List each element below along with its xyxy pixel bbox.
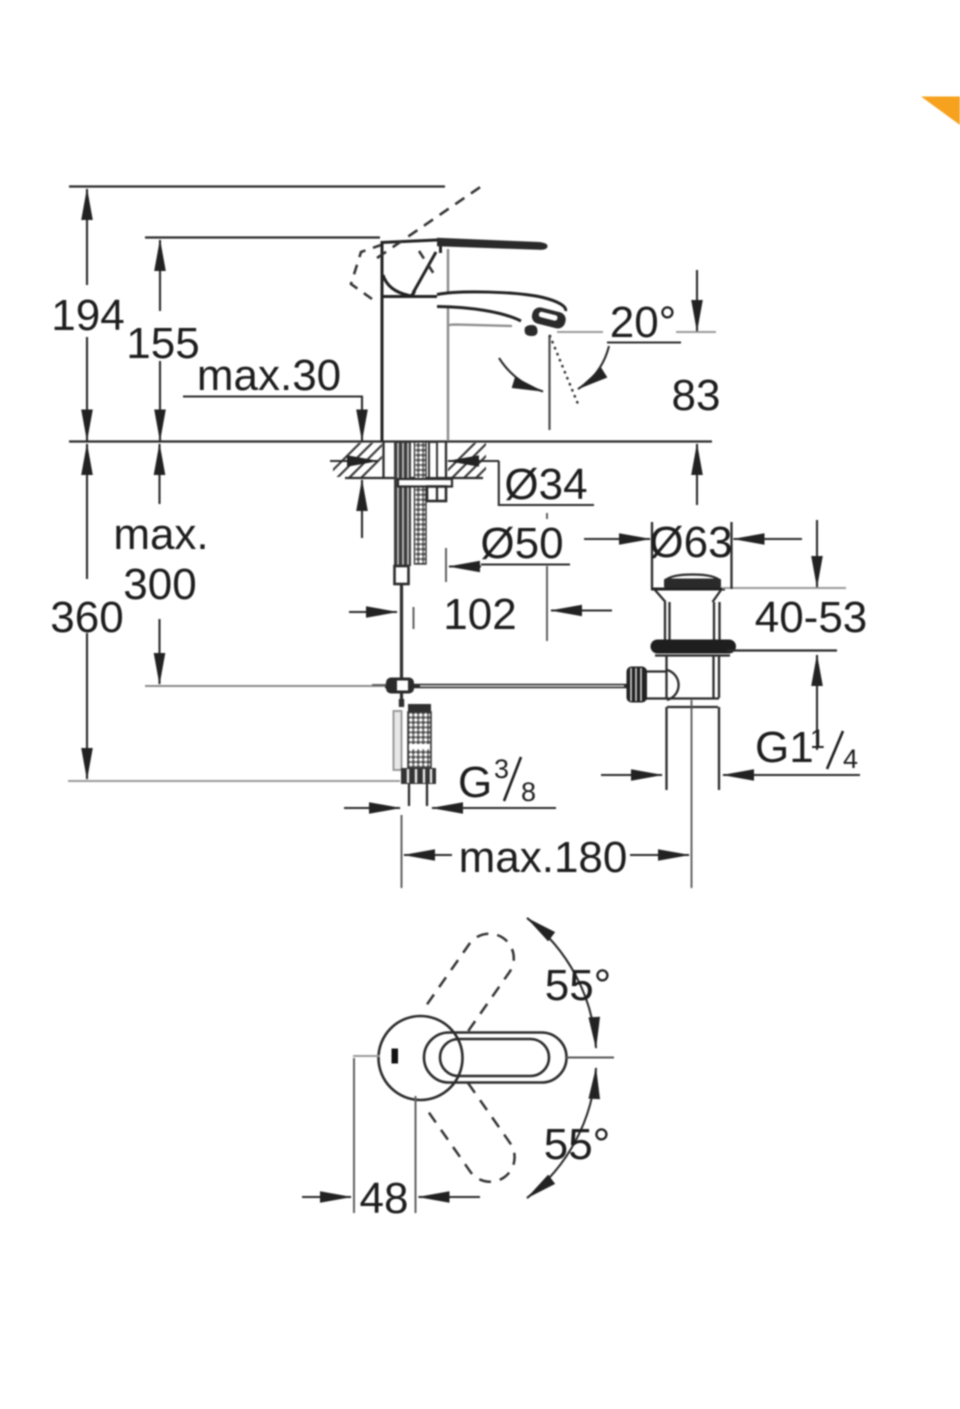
svg-text:155: 155 [126,319,199,368]
svg-text:360: 360 [50,593,123,642]
dimension Ø34 leader [330,460,378,462]
20deg dotted slant line [550,336,578,404]
20deg vertical line [548,335,550,430]
svg-text:Ø63: Ø63 [649,518,732,567]
body circle [379,1016,463,1100]
svg-text:G1: G1 [755,723,814,772]
axis line right [566,1057,614,1059]
svg-text:G: G [458,758,492,807]
20deg arc arrow left [499,358,543,392]
hose bottom ref line (360) [68,780,400,782]
body front edge (grey) [447,249,449,441]
ref line top (194) [69,185,445,187]
handle corner arc [406,291,415,296]
side port [646,670,667,672]
20deg arc arrow right [578,346,609,389]
counter cross-section hatching left [325,442,397,478]
counter underside line [345,477,483,479]
handle neck curve [383,275,409,296]
counter top line [69,440,712,442]
counter cross-section hatching right [440,442,512,478]
dimension G1 1/4 arrows [601,774,662,776]
dimension max.300 [158,444,160,504]
knurled knob [627,667,648,703]
svg-text:1: 1 [810,724,825,754]
mounting nut [427,487,446,502]
swing arc lower [527,1068,596,1198]
linkage rod grey left part [145,685,385,687]
neck [655,590,666,602]
faucet body left edge [381,241,384,441]
threaded shank solid bar [394,442,411,566]
shank white strip [429,442,437,478]
svg-text:8: 8 [521,777,536,807]
lever inner outline [440,1039,549,1076]
dimension 83 [696,270,698,331]
svg-text:20°: 20° [610,298,677,347]
ghost lever -55 dashed [428,1083,524,1191]
cap brim [651,588,725,591]
lower brim [655,654,730,656]
svg-text:Ø50: Ø50 [480,519,563,568]
linkage rod [385,684,628,689]
lever bar [437,238,548,250]
o-ring [651,640,737,654]
hole edges [382,442,384,478]
tail pipe walls [665,707,667,790]
supply hose braided [408,704,431,714]
indicator tick [392,1049,399,1064]
seam line [382,295,447,298]
spout height grey line [557,331,603,333]
svg-text:max.30: max.30 [197,351,341,400]
handle lower-right diagonal [413,252,436,293]
svg-text:55°: 55° [545,961,612,1010]
dimension G3/8 arrows [344,807,400,809]
ghost lever dashed [377,187,481,259]
hose nut [401,768,436,784]
hose tails [408,784,410,806]
svg-text:40-53: 40-53 [755,593,868,642]
dimension Ø63 [651,522,653,589]
svg-text:83: 83 [672,371,721,420]
svg-text:102: 102 [443,590,516,639]
drain cap [665,575,720,582]
threaded shank crosshatch bar [415,442,427,564]
svg-text:48: 48 [360,1174,409,1223]
40-53 bottom ref [727,649,837,651]
swing arc upper [527,918,596,1048]
handle pivot edge [439,242,442,253]
svg-text:194: 194 [51,291,124,340]
pull rod [400,584,403,700]
svg-text:max.: max. [113,510,208,559]
drain axis line [691,700,693,888]
svg-text:300: 300 [123,560,196,609]
svg-text:3: 3 [494,754,509,784]
dimension 194 [86,189,88,285]
ghost handle dashed outline [351,245,381,299]
svg-text:4: 4 [843,744,858,774]
spout stub grey [353,1055,380,1057]
dimension 360 [86,444,88,579]
pull rod coupler [395,566,409,584]
dimension max.180 [401,815,403,888]
aerator tip [530,306,567,330]
rod clevis joint [386,678,414,694]
ref line 155 [145,236,380,238]
upper body walls [664,602,666,640]
orange corner badge [921,97,960,126]
dimension 48 [353,1058,355,1213]
dimension 40-53 [816,520,818,587]
mounting washer [398,479,452,487]
svg-text:Ø34: Ø34 [504,460,587,509]
dimension 155 [159,240,161,311]
spout beak [437,292,566,318]
svg-text:55°: 55° [544,1120,611,1169]
svg-text:max.180: max.180 [459,833,628,882]
lever outer outline [424,1033,567,1083]
40-53 top grey ref [722,587,846,589]
tail pipe top lines [666,697,719,699]
handle top edge [381,240,437,243]
supply hose grey (rear) [394,711,402,770]
ghost lever +55 dashed [427,924,523,1032]
spout underside grey [448,325,512,327]
lower body walls [665,656,667,698]
